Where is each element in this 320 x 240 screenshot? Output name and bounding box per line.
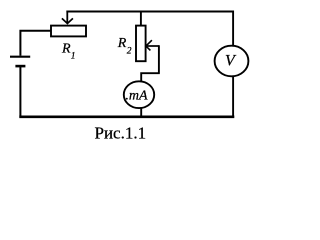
- wire R2 wiper to mA: [141, 45, 160, 81]
- svg-text:Рис.1.1: Рис.1.1: [95, 124, 147, 143]
- wire mA to bottom bus: [140, 108, 142, 117]
- battery long plate: [10, 56, 30, 58]
- svg-text:1: 1: [71, 52, 76, 62]
- svg-text:2: 2: [127, 47, 132, 57]
- resistor R2: [136, 26, 146, 62]
- wire top bus to R2: [140, 12, 142, 27]
- wire battery down: [19, 66, 21, 116]
- wire battery to R1: [20, 30, 51, 56]
- voltmeter V: [215, 46, 249, 77]
- wire V to bottom bus: [232, 76, 234, 116]
- wire R1 wiper drop: [66, 11, 68, 24]
- arrowhead on R2 wiper: [146, 40, 152, 50]
- wire bottom bus: [19, 116, 234, 119]
- battery short plate: [15, 65, 25, 68]
- arrowhead on R1 wiper: [62, 18, 73, 23]
- svg-text:.mA: .mA: [125, 88, 148, 103]
- resistor R1: [51, 26, 86, 37]
- milliammeter mA: [124, 81, 154, 108]
- wire top bus to V: [232, 11, 234, 47]
- svg-text:R: R: [117, 36, 127, 51]
- svg-text:R: R: [61, 42, 71, 57]
- R2 wiper arrow line: [147, 45, 159, 47]
- wire top bus: [66, 11, 234, 13]
